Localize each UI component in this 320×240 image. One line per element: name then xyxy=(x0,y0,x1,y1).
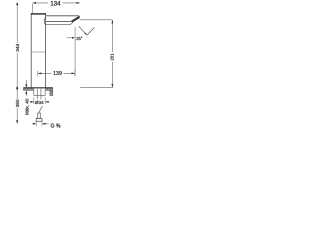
dim 134 extension line xyxy=(32,3,34,13)
dim 350 line xyxy=(16,88,18,123)
dim 134 text xyxy=(50,1,61,7)
spout leader line xyxy=(80,19,113,21)
dim 344 bottom arrow xyxy=(16,86,18,91)
counter level reference line right xyxy=(80,86,113,88)
dim 139 right tick xyxy=(74,70,76,77)
dim diameter 34 left arrow xyxy=(30,101,34,103)
dim diameter 34 right arrow xyxy=(45,101,49,103)
dim 344 line xyxy=(16,3,18,88)
spout lower bottom edge xyxy=(46,22,74,25)
dim 261 text xyxy=(110,53,115,61)
dim 134 arrows xyxy=(33,2,36,4)
spout arm bottom edge xyxy=(46,20,72,22)
threaded rod xyxy=(37,89,41,100)
counter thickness top arrow xyxy=(25,80,27,88)
countertop right edge block xyxy=(50,90,53,95)
countertop slab right xyxy=(45,88,52,91)
svg-text:344: 344 xyxy=(15,43,21,51)
spout tip slanted aerator face xyxy=(72,17,80,22)
svg-text:25°: 25° xyxy=(76,36,83,41)
flexible hose curve xyxy=(39,106,43,113)
svg-text:G ⅜: G ⅜ xyxy=(50,123,60,129)
svg-text:139: 139 xyxy=(53,71,62,77)
svg-text:Máx. 40: Máx. 40 xyxy=(25,98,30,115)
dim 344 text xyxy=(15,43,21,51)
dim 139 line xyxy=(38,72,75,74)
hose end stem xyxy=(38,113,41,119)
hose end nut xyxy=(36,119,42,122)
faucet top cap (lever) xyxy=(31,13,46,15)
dim 261 line xyxy=(111,20,113,88)
dim G3/8 text xyxy=(50,123,60,129)
svg-text:Ø34: Ø34 xyxy=(35,100,44,105)
dim G3/8 right arrow xyxy=(42,123,49,125)
spout arm top edge xyxy=(46,16,80,17)
column seam line xyxy=(31,51,45,53)
dim G3/8 left arrow xyxy=(33,123,36,125)
mounting shank below counter xyxy=(34,90,45,95)
countertop top surface line xyxy=(23,87,52,89)
dim 350 bottom arrow xyxy=(16,120,18,123)
dim 139 text xyxy=(53,71,62,77)
svg-text:261: 261 xyxy=(110,53,115,61)
dim G3/8 ticks xyxy=(36,122,42,127)
angle second line xyxy=(87,27,94,35)
angle stream arrowhead xyxy=(84,33,87,35)
svg-text:350: 350 xyxy=(15,99,20,107)
dim 139 arrows xyxy=(38,72,41,74)
dim 261 top arrow xyxy=(111,20,113,23)
dim diameter 34 extension lines xyxy=(34,97,45,104)
faucet column body xyxy=(31,13,45,88)
counter thickness text Max.40 xyxy=(25,98,30,115)
counter thickness bottom arrow xyxy=(25,91,27,97)
dim 134 line xyxy=(33,2,80,4)
dim 344 top arrow xyxy=(16,2,18,5)
dim 261 bottom arrow xyxy=(111,84,113,87)
angle vertical reference line xyxy=(74,27,76,76)
dim 139 left axis tick xyxy=(37,71,39,77)
dim diameter 34 text xyxy=(35,100,44,105)
angle text 25 xyxy=(76,36,83,41)
spout joint arc on column xyxy=(44,17,45,25)
countertop slab left xyxy=(23,88,33,91)
angle arc arrow left xyxy=(67,37,75,39)
angle stream line xyxy=(79,26,87,35)
spout tip inner thin line xyxy=(71,17,78,21)
dim 350 text xyxy=(15,99,20,107)
svg-text:134: 134 xyxy=(50,1,61,7)
